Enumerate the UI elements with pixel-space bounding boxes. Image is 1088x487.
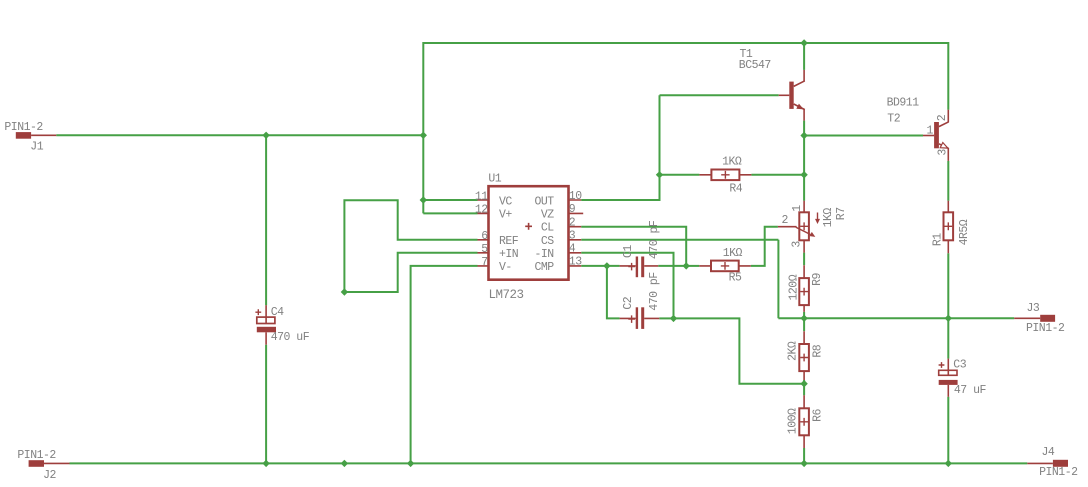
wire C4 lower: [265, 345, 267, 464]
svg-text:VZ: VZ: [541, 208, 554, 221]
svg-text:C3: C3: [953, 359, 966, 372]
resistor R9: [787, 265, 824, 312]
svg-text:-IN: -IN: [534, 248, 553, 261]
connector J4 pad: [1027, 446, 1078, 479]
resistor R8: [787, 331, 825, 380]
wire R9 junction to R8 green: [803, 318, 805, 331]
wire bottom rail: [70, 462, 1028, 464]
U1 pin names right: [534, 195, 554, 274]
wire C1 right green: [658, 265, 686, 267]
capacitor C1: [620, 220, 661, 277]
wire -IN pin4 down to C2 junction: [581, 253, 673, 319]
svg-text:PIN1-2: PIN1-2: [4, 121, 43, 134]
svg-text:3: 3: [791, 241, 804, 248]
U1 pin numbers left: [475, 190, 488, 269]
wire V+ pin12: [423, 212, 477, 214]
node C2 right: [670, 315, 677, 322]
resistor R4: [699, 156, 751, 196]
node CL/R5: [683, 262, 690, 269]
svg-text:470 pF: 470 pF: [648, 272, 661, 311]
svg-text:OUT: OUT: [534, 195, 554, 208]
svg-text:U1: U1: [488, 173, 501, 186]
wire R5 left green: [686, 265, 699, 267]
wire C3 top green: [947, 318, 949, 358]
svg-text:R4: R4: [729, 182, 742, 195]
wire J1 to left vertical: [56, 134, 423, 136]
svg-text:7: 7: [481, 256, 487, 269]
svg-text:47 uF: 47 uF: [954, 384, 987, 397]
svg-text:J4: J4: [1042, 446, 1055, 459]
wire C2 right green: [659, 317, 673, 319]
wire R4 left green: [660, 174, 700, 176]
wire +IN loop: [344, 253, 477, 292]
svg-text:R7: R7: [835, 207, 848, 220]
svg-text:VC: VC: [499, 195, 512, 208]
wire OUT pin10 up to R4 left: [581, 95, 659, 200]
wire REF loop: [344, 200, 477, 292]
wire R7 to R9 green: [803, 253, 805, 266]
node R8 bottom: [800, 380, 807, 387]
svg-text:100Ω: 100Ω: [787, 408, 800, 434]
svg-text:J2: J2: [43, 469, 56, 482]
svg-text:1KΩ: 1KΩ: [723, 247, 743, 260]
connector J1 pad: [4, 121, 56, 153]
resistor R1: [931, 201, 971, 254]
svg-text:+IN: +IN: [499, 248, 518, 261]
svg-text:3: 3: [936, 149, 949, 156]
wire C3 bottom green: [947, 397, 949, 464]
wire T2 collector green: [947, 42, 949, 110]
svg-text:PIN1-2: PIN1-2: [1026, 322, 1065, 335]
node J3 / R1 / C3: [945, 315, 952, 322]
svg-text:C2: C2: [622, 296, 635, 309]
wire R8 junction to R6 green: [803, 384, 805, 396]
svg-text:BC547: BC547: [739, 59, 771, 72]
wire VC pin11: [423, 199, 477, 201]
svg-text:V-: V-: [499, 261, 512, 274]
resistor R5: [699, 247, 751, 285]
node J1 wire / left vertical: [420, 132, 427, 139]
wire R4 row down to R7: [803, 175, 805, 201]
wire CMP down to C2: [607, 266, 620, 319]
node T1 emitter / T2 base: [800, 132, 807, 139]
U1 pin numbers right: [569, 190, 582, 269]
node J1/C4: [262, 132, 269, 139]
wire CS pin3: [581, 239, 778, 241]
wire T1 emitter to junction: [803, 121, 805, 136]
svg-text:J1: J1: [30, 141, 43, 154]
wire R9 bottom green: [803, 312, 805, 318]
svg-text:BD911: BD911: [887, 97, 920, 110]
svg-text:1: 1: [791, 205, 804, 212]
svg-text:11: 11: [475, 190, 488, 203]
svg-text:R6: R6: [811, 408, 824, 421]
svg-text:5: 5: [481, 243, 488, 256]
transistor T2 BD911: [887, 97, 950, 161]
capacitor C4 polarized: [255, 305, 309, 345]
node R9 bottom: [800, 315, 807, 322]
svg-text:1: 1: [927, 124, 934, 137]
svg-text:PIN1-2: PIN1-2: [17, 449, 56, 462]
wire R4 right green: [751, 174, 804, 176]
node bottom rail V-: [407, 460, 414, 467]
svg-text:V+: V+: [499, 208, 512, 221]
wire C2 junction to R8 bottom junction: [674, 318, 805, 383]
wire T1 emitter junction to T2 base: [804, 135, 923, 137]
U1 pin names left: [499, 195, 519, 274]
svg-text:CMP: CMP: [534, 261, 554, 274]
svg-text:470 uF: 470 uF: [271, 331, 310, 344]
wire CMP pin13: [581, 265, 619, 267]
svg-text:C4: C4: [271, 306, 284, 319]
svg-text:470 pF: 470 pF: [648, 220, 661, 259]
svg-text:4: 4: [569, 243, 576, 256]
svg-text:2: 2: [569, 216, 576, 229]
wire T2 emitter to R1: [947, 161, 949, 201]
node bottom rail x344: [341, 460, 348, 467]
wire top rail: [423, 42, 948, 44]
node bottom rail R6: [800, 460, 807, 467]
U1 left pin stubs: [478, 200, 489, 266]
svg-text:3: 3: [569, 230, 576, 243]
svg-text:R9: R9: [811, 272, 824, 285]
svg-text:R5: R5: [729, 272, 742, 285]
wire V- pin7 to bottom rail: [411, 266, 478, 464]
resistor R6: [787, 395, 825, 448]
transistor T1 BC547: [739, 48, 805, 121]
wire T1 base: [660, 94, 779, 96]
node VC: [420, 196, 427, 203]
svg-text:J3: J3: [1027, 302, 1040, 315]
svg-text:1KΩ: 1KΩ: [722, 156, 742, 169]
svg-text:1KΩ: 1KΩ: [822, 208, 835, 228]
wire J3 row: [778, 317, 1014, 319]
svg-text:REF: REF: [499, 235, 519, 248]
wire R1 bottom to J3 junction: [947, 253, 949, 318]
svg-text:T2: T2: [887, 113, 900, 126]
svg-text:CL: CL: [541, 222, 554, 235]
node R4 right: [800, 171, 807, 178]
wire C4 upper: [265, 135, 267, 305]
svg-text:12: 12: [475, 204, 488, 217]
capacitor C2: [620, 272, 661, 329]
potentiometer R7: [778, 201, 848, 253]
wire emitter junction down to R4 row: [803, 136, 805, 175]
wire R8 bottom green: [803, 380, 805, 384]
svg-text:CS: CS: [541, 235, 554, 248]
svg-text:R1: R1: [931, 233, 944, 246]
node top rail T1: [800, 39, 807, 46]
svg-text:10: 10: [569, 190, 582, 203]
svg-text:6: 6: [481, 230, 488, 243]
wire R6 bottom to rail: [803, 448, 805, 463]
wire R5 right up to R7 wiper: [751, 227, 778, 266]
op-amp regulator U1 LM723 box: [488, 173, 568, 303]
wire left vertical from top rail to U1 rows: [422, 42, 424, 213]
U1 right pin stubs: [569, 200, 584, 266]
capacitor C3 polarized: [939, 359, 987, 397]
svg-text:4R5Ω: 4R5Ω: [958, 219, 971, 245]
node loop corner: [341, 288, 348, 295]
node bottom rail C4: [262, 460, 269, 467]
svg-text:2: 2: [936, 114, 949, 121]
svg-text:PIN1-2: PIN1-2: [1039, 466, 1078, 479]
connector J3 pad: [1014, 302, 1065, 335]
svg-text:LM723: LM723: [489, 288, 524, 302]
svg-text:13: 13: [569, 256, 582, 269]
wire T1 collector green: [803, 42, 805, 70]
svg-text:R8: R8: [811, 344, 824, 357]
svg-text:C1: C1: [622, 245, 635, 258]
wire CL pin2 down to R5 junction: [581, 227, 686, 266]
svg-text:9: 9: [569, 203, 576, 216]
connector J2 pad: [17, 449, 69, 482]
svg-text:2: 2: [782, 214, 789, 227]
wire CS pin3 down: [777, 240, 779, 318]
node CMP/C1: [603, 262, 610, 269]
svg-text:120Ω: 120Ω: [787, 274, 800, 300]
svg-text:2KΩ: 2KΩ: [787, 341, 800, 361]
node bottom rail C3: [945, 460, 952, 467]
node R4 left: [656, 171, 663, 178]
